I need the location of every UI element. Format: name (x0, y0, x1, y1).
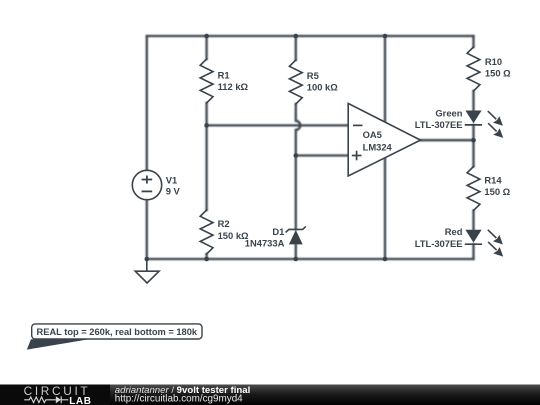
wire R2 branch top lead (205, 125, 207, 210)
svg-text:http://circuitlab.com/cg9myd4: http://circuitlab.com/cg9myd4 (115, 394, 243, 405)
V1 labels (166, 174, 181, 196)
zener diode D1 (245, 226, 306, 249)
annotation callout box (27, 324, 202, 350)
wire R5 to plus node with hop over mid wire (296, 104, 301, 156)
svg-text:150 kΩ: 150 kΩ (218, 230, 249, 241)
wire output node to R14 (472, 140, 474, 166)
resistor R14 body (467, 167, 480, 211)
wire D1 anode to bottom rail (295, 244, 297, 259)
wire plus node down to zener D1 (295, 156, 297, 230)
wire R10 to green LED (472, 91, 474, 111)
wire left rail lower (V1 to bottom rail) (146, 200, 148, 259)
svg-text:R2: R2 (218, 218, 230, 229)
svg-text:150 Ω: 150 Ω (485, 68, 511, 79)
svg-text:150 Ω: 150 Ω (484, 186, 510, 197)
wire mid node to op-amp inverting input (207, 124, 349, 126)
ground (135, 259, 159, 283)
wire bottom rail (147, 258, 474, 260)
svg-text:LM324: LM324 (363, 141, 393, 152)
svg-text:Green: Green (435, 107, 462, 118)
svg-text:D1: D1 (272, 226, 284, 237)
svg-text:R1: R1 (218, 69, 230, 80)
svg-text:9 V: 9 V (166, 185, 181, 196)
wire R5 branch top lead (295, 36, 297, 60)
wire R14 to red LED (472, 211, 474, 230)
resistor R5 body (289, 60, 302, 104)
wire R1 branch top lead (205, 36, 207, 59)
svg-text:REAL top = 260k, real bottom =: REAL top = 260k, real bottom = 180k (37, 327, 198, 337)
svg-text:LAB: LAB (69, 396, 91, 405)
svg-text:112 kΩ: 112 kΩ (218, 81, 249, 92)
wire right rail top (top rail to R10) (472, 36, 474, 47)
svg-text:R5: R5 (307, 70, 319, 81)
wire op-amp output (421, 139, 474, 141)
LED D green (415, 107, 503, 137)
svg-text:1N4733A: 1N4733A (245, 238, 285, 249)
svg-text:LTL-307EE: LTL-307EE (415, 119, 463, 130)
wire power rail behind op-amp (384, 36, 386, 259)
wire plus node to op-amp non-inverting input (296, 154, 348, 156)
op-amp OA5 (348, 103, 420, 176)
wire R2 bottom lead (205, 254, 207, 259)
wire red LED cathode to bottom rail (472, 244, 474, 259)
resistor R1 body (200, 59, 213, 103)
resistor bodies (sharp) (200, 47, 480, 254)
resistor R10 body (467, 47, 480, 91)
svg-text:LTL-307EE: LTL-307EE (415, 238, 463, 249)
svg-text:V1: V1 (166, 174, 177, 185)
LED D red (415, 226, 503, 256)
wire green LED cathode to output node (472, 125, 474, 140)
svg-text:OA5: OA5 (363, 129, 382, 140)
wire R1 bottom lead to node (205, 103, 207, 125)
wire left rail upper (top rail to V1) (146, 36, 148, 170)
footer logo black field (0, 385, 110, 405)
svg-text:R10: R10 (485, 56, 502, 67)
svg-text:Red: Red (445, 226, 463, 237)
svg-text:R14: R14 (484, 174, 502, 185)
resistor labels R1 (218, 56, 512, 241)
logo resistor-diode glyph (24, 396, 68, 403)
svg-text:100 kΩ: 100 kΩ (307, 82, 338, 93)
voltage source V1 (132, 170, 161, 199)
wire top rail (147, 35, 474, 37)
resistor R2 body (200, 210, 213, 254)
